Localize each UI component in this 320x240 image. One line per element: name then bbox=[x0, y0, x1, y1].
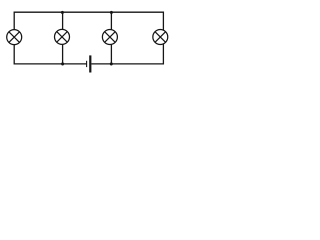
junction dot: bottom of branch 3 bbox=[110, 62, 113, 65]
lamp L3 circle bbox=[102, 30, 117, 45]
lamp L2 cross bbox=[57, 32, 68, 43]
wire: branch 3 vertical bbox=[110, 12, 112, 64]
wire: main loop (bottom-left segment, left edge, top rail, right edge, bottom-right segment) bbox=[14, 12, 163, 64]
lamp L3 cross bbox=[105, 32, 116, 43]
battery cell: thick long plate (right) bbox=[89, 55, 91, 72]
junction dot: top of branch 2 bbox=[61, 11, 64, 14]
lamp L1 cross bbox=[9, 32, 20, 43]
wire: branch 2 vertical bbox=[62, 12, 64, 64]
battery cell: thin short plate (left) bbox=[86, 61, 88, 67]
lamp L4 circle bbox=[153, 30, 168, 45]
junction dot: top of branch 3 bbox=[110, 11, 113, 14]
lamp L4 cross bbox=[155, 32, 166, 43]
lamp L2 circle bbox=[55, 29, 70, 44]
junction dot: bottom of branch 2 bbox=[61, 62, 64, 65]
lamp L1 circle bbox=[7, 30, 22, 45]
